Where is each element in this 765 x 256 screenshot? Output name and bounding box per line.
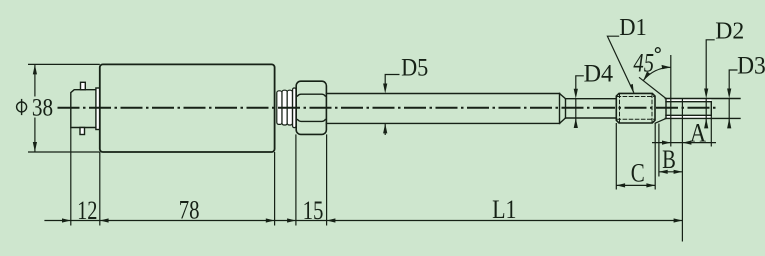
chamfer line top with extension bbox=[640, 78, 667, 99]
arrow 12 left outside bbox=[62, 218, 71, 222]
shaft bottom edge bbox=[326, 122, 559, 124]
ext nut left bbox=[295, 134, 297, 225]
hex nut bbox=[296, 81, 326, 134]
phi38 top extension bbox=[28, 63, 100, 65]
D3 bracket bbox=[729, 70, 737, 95]
cable gland ribs bbox=[277, 88, 296, 128]
svg-text:D5: D5 bbox=[401, 55, 428, 82]
arrow 45 arc right bbox=[662, 65, 671, 69]
ext body right bbox=[274, 152, 276, 226]
thread dashed left bbox=[619, 94, 621, 122]
B dimension line bbox=[659, 171, 683, 173]
nut facet top bbox=[298, 94, 326, 96]
arrow D2 down bbox=[704, 89, 708, 99]
arrow D3 up bbox=[727, 118, 731, 128]
D4 lower tail bbox=[575, 118, 577, 128]
arrow A right bbox=[662, 141, 671, 145]
phi38 dimension line lower bbox=[34, 118, 36, 153]
ext connector left bbox=[70, 128, 72, 226]
svg-text:45: 45 bbox=[633, 48, 654, 77]
arrow D3 down bbox=[727, 89, 731, 99]
svg-text:C: C bbox=[631, 159, 645, 188]
neck bottom edge bbox=[566, 117, 617, 119]
arrow D4 down bbox=[574, 89, 578, 99]
thread block bbox=[616, 93, 655, 123]
connector bottom tab bbox=[80, 128, 85, 135]
main body bbox=[100, 64, 275, 152]
arrow D4 up bbox=[574, 118, 578, 128]
thread dashed top bbox=[617, 96, 654, 98]
45 deg arc bbox=[643, 67, 671, 80]
thread dashed bottom bbox=[617, 118, 654, 120]
phi38 dimension line upper bbox=[34, 64, 36, 96]
45 ext vertical bbox=[670, 55, 672, 147]
shaft top edge bbox=[326, 93, 559, 95]
arrow phi38 up bbox=[33, 64, 37, 74]
C dimension line bbox=[616, 184, 655, 186]
sheath white band top bbox=[666, 99, 711, 102]
svg-text:D1: D1 bbox=[619, 14, 647, 41]
D5 lower tail bbox=[384, 123, 386, 135]
arrow D2 up bbox=[704, 118, 708, 128]
ext L1 right / step bbox=[681, 99, 683, 242]
svg-text:D3: D3 bbox=[737, 51, 765, 80]
sheath bottom edge and D-extension bbox=[665, 117, 740, 119]
taper to neck bottom bbox=[560, 118, 566, 123]
ext block right down bbox=[654, 123, 656, 190]
thread dashed right bbox=[651, 94, 653, 122]
ext body left bbox=[99, 152, 101, 226]
bottom dimension line bbox=[44, 220, 682, 222]
connector top tab bbox=[81, 82, 86, 89]
svg-text:38: 38 bbox=[32, 95, 53, 122]
D5 bracket bbox=[385, 75, 399, 89]
label phi38 symbol bbox=[17, 102, 27, 112]
arrow phi38 down bbox=[33, 142, 37, 152]
D4 line through neck bbox=[575, 99, 577, 118]
arrow D5 down bbox=[383, 84, 387, 94]
ext tip end down bbox=[710, 116, 712, 147]
arrow D1 leader bbox=[630, 84, 634, 93]
svg-text:12: 12 bbox=[77, 196, 97, 225]
arrow D5 up bbox=[383, 123, 387, 133]
svg-text:78: 78 bbox=[179, 195, 200, 224]
arrow 45 arc left bbox=[643, 72, 650, 81]
arrow 12/78 at body left bbox=[100, 218, 109, 222]
tip bottom edge bbox=[666, 114, 711, 116]
D4 bracket bbox=[576, 76, 584, 94]
chamfer line bottom bbox=[655, 118, 666, 123]
arrow C right bbox=[646, 183, 655, 187]
neck shoulder bbox=[565, 99, 567, 118]
ext nut right bbox=[326, 134, 328, 225]
tip top edge bbox=[666, 101, 711, 103]
D2 bracket bbox=[706, 40, 715, 95]
sheath left face bbox=[665, 99, 667, 119]
D3 vertical through part bbox=[728, 99, 730, 125]
ext B left bbox=[658, 124, 660, 177]
neck top edge bbox=[566, 98, 617, 100]
arrow 15 left outside bbox=[287, 218, 296, 222]
svg-text:D2: D2 bbox=[715, 19, 744, 45]
sheath white band bottom bbox=[666, 115, 711, 118]
centerline bbox=[58, 107, 719, 109]
svg-text:B: B bbox=[662, 145, 676, 174]
svg-text:A: A bbox=[690, 118, 706, 147]
tip end face bbox=[710, 102, 712, 116]
phi38 bottom extension bbox=[28, 151, 100, 153]
D2 vertical through part bbox=[705, 99, 707, 125]
D1 leader bbox=[607, 36, 633, 92]
svg-text:L1: L1 bbox=[492, 195, 516, 224]
taper to neck top bbox=[560, 94, 566, 99]
arrow A left bbox=[683, 141, 692, 145]
arrow C left bbox=[616, 183, 625, 187]
nut facet bottom bbox=[298, 120, 326, 122]
svg-text:D4: D4 bbox=[584, 59, 614, 88]
ext block left down bbox=[615, 123, 617, 190]
connector J1 body bbox=[71, 90, 97, 128]
arrow 15/L1 at nut right bbox=[327, 218, 336, 222]
arrow 78 right bbox=[266, 218, 275, 222]
arrow B left bbox=[659, 170, 668, 174]
shaft end face bbox=[559, 94, 561, 124]
connector flange bbox=[96, 88, 100, 130]
A dimension line bbox=[652, 142, 716, 144]
svg-text:15: 15 bbox=[303, 196, 324, 225]
arrow B right bbox=[674, 170, 683, 174]
sheath top edge and D-extension bbox=[665, 98, 740, 100]
arrow L1 right bbox=[674, 218, 683, 222]
